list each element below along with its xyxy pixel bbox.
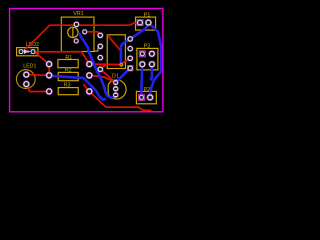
via V1 near U1	[119, 63, 123, 67]
svg-text:R1: R1	[65, 55, 72, 61]
svg-text:LED1: LED1	[23, 64, 36, 70]
wire red VR1 wiper right	[85, 32, 101, 36]
svg-text:P1: P1	[144, 13, 151, 19]
pad Rp2	[86, 72, 93, 79]
pad U1-L1	[97, 32, 103, 38]
pad D1-3	[113, 92, 119, 98]
wire red main bus y25 to P1	[50, 23, 140, 25]
wire red Rp2 to D1 pad1	[89, 75, 115, 82]
wire blue R2 row	[49, 76, 106, 100]
pad P3-3	[139, 61, 146, 68]
silk D1 outline	[108, 80, 126, 99]
silk U1 (IC) box	[107, 35, 125, 69]
wire red via to U1.L4	[100, 65, 106, 70]
silk R2 body	[58, 72, 78, 80]
wire red diag LED2 to main bus	[23, 25, 50, 51]
pad VR1-3	[73, 38, 79, 44]
silk P3 box	[137, 48, 158, 70]
wire blue P1 right edge down to P2	[148, 23, 161, 98]
pad Rp1	[86, 60, 93, 67]
pad U1-R2	[127, 45, 133, 51]
pad L3	[45, 88, 52, 95]
wire red R3 to bottom bus	[89, 91, 151, 110]
wire blue P3 right stub	[151, 64, 152, 80]
pad VR1-2 wiper	[82, 29, 88, 35]
wire red L1-L2 vertical	[48, 64, 50, 75]
wire blue P3 left to P2 left	[140, 64, 143, 97]
pad U1-L2	[97, 43, 103, 49]
pad P3-4	[148, 61, 155, 68]
silk P2 box	[136, 91, 156, 103]
pad VR1-1	[73, 21, 79, 27]
board outline	[10, 9, 163, 112]
pad P3-1 square	[139, 50, 146, 57]
pad P2-1 square	[138, 94, 145, 101]
wire red branch padB-line to Rp3	[84, 84, 90, 91]
pad P1-2	[145, 19, 152, 26]
pad U1-R3	[127, 55, 133, 61]
wire red LED1 padB to L3	[26, 84, 49, 92]
svg-text:P3: P3	[144, 44, 151, 50]
silk R3 body	[58, 88, 78, 95]
silk VR1 box	[61, 17, 98, 51]
pad P2-2	[146, 94, 153, 101]
wire blue VR1 wiper to D1 wrap	[79, 33, 116, 98]
silk P1 box	[136, 17, 156, 30]
silk VR1 pot circle	[68, 27, 78, 37]
silk R1 body	[58, 60, 78, 68]
svg-text:R2: R2	[65, 68, 72, 74]
pad D1-2	[113, 86, 119, 92]
wire red LED2 row to Rp1	[33, 52, 89, 64]
wire blue U1.R1 to via	[121, 39, 130, 65]
wire red LED1 padA to L2	[26, 74, 49, 77]
pad LED2-1	[19, 49, 24, 54]
pad U1-R4 square	[127, 65, 133, 71]
pad LED2-2	[31, 49, 36, 54]
pad L2	[45, 72, 52, 79]
pad L1	[45, 60, 52, 67]
wire red via to U1.R3	[120, 58, 130, 64]
pad P3-2	[148, 50, 155, 57]
svg-text:R3: R3	[64, 82, 71, 88]
wire red branch to L1	[35, 52, 50, 64]
pad Rp3	[86, 88, 93, 95]
wire blue P1 to IC R1	[130, 24, 148, 39]
LED2 symbol	[23, 50, 30, 53]
pad LED1-B	[23, 80, 30, 87]
pad LED1-A	[23, 71, 30, 78]
wire red U1 interior diagonal	[108, 35, 121, 51]
wire blue U1.R4 to D1 pad1	[116, 68, 131, 82]
pad U1-R1	[127, 36, 133, 42]
wire red IC L4 to D1 pad1	[100, 69, 115, 82]
silk LED1 circle	[16, 70, 35, 89]
silk LED2 box	[17, 48, 38, 56]
svg-text:VR1: VR1	[73, 11, 83, 17]
pad P1-1 square	[137, 19, 144, 26]
pad D1-1	[113, 80, 119, 86]
pad U1-L4	[97, 66, 103, 72]
pad U1-L3	[97, 54, 103, 60]
wire red Rp1 right	[89, 63, 120, 65]
